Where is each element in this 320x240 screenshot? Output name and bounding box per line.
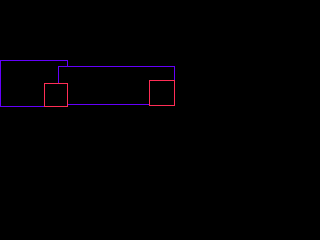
red square A (left, black fill, drawn over blue rectangles) xyxy=(44,83,68,107)
blue rectangle 2 (wide, black fill, drawn over rectangle 1) xyxy=(58,66,175,105)
red square B (right, black fill, drawn over blue rectangle 2) xyxy=(149,80,175,106)
blue rectangle 1 (left, drawn first) xyxy=(0,60,68,107)
